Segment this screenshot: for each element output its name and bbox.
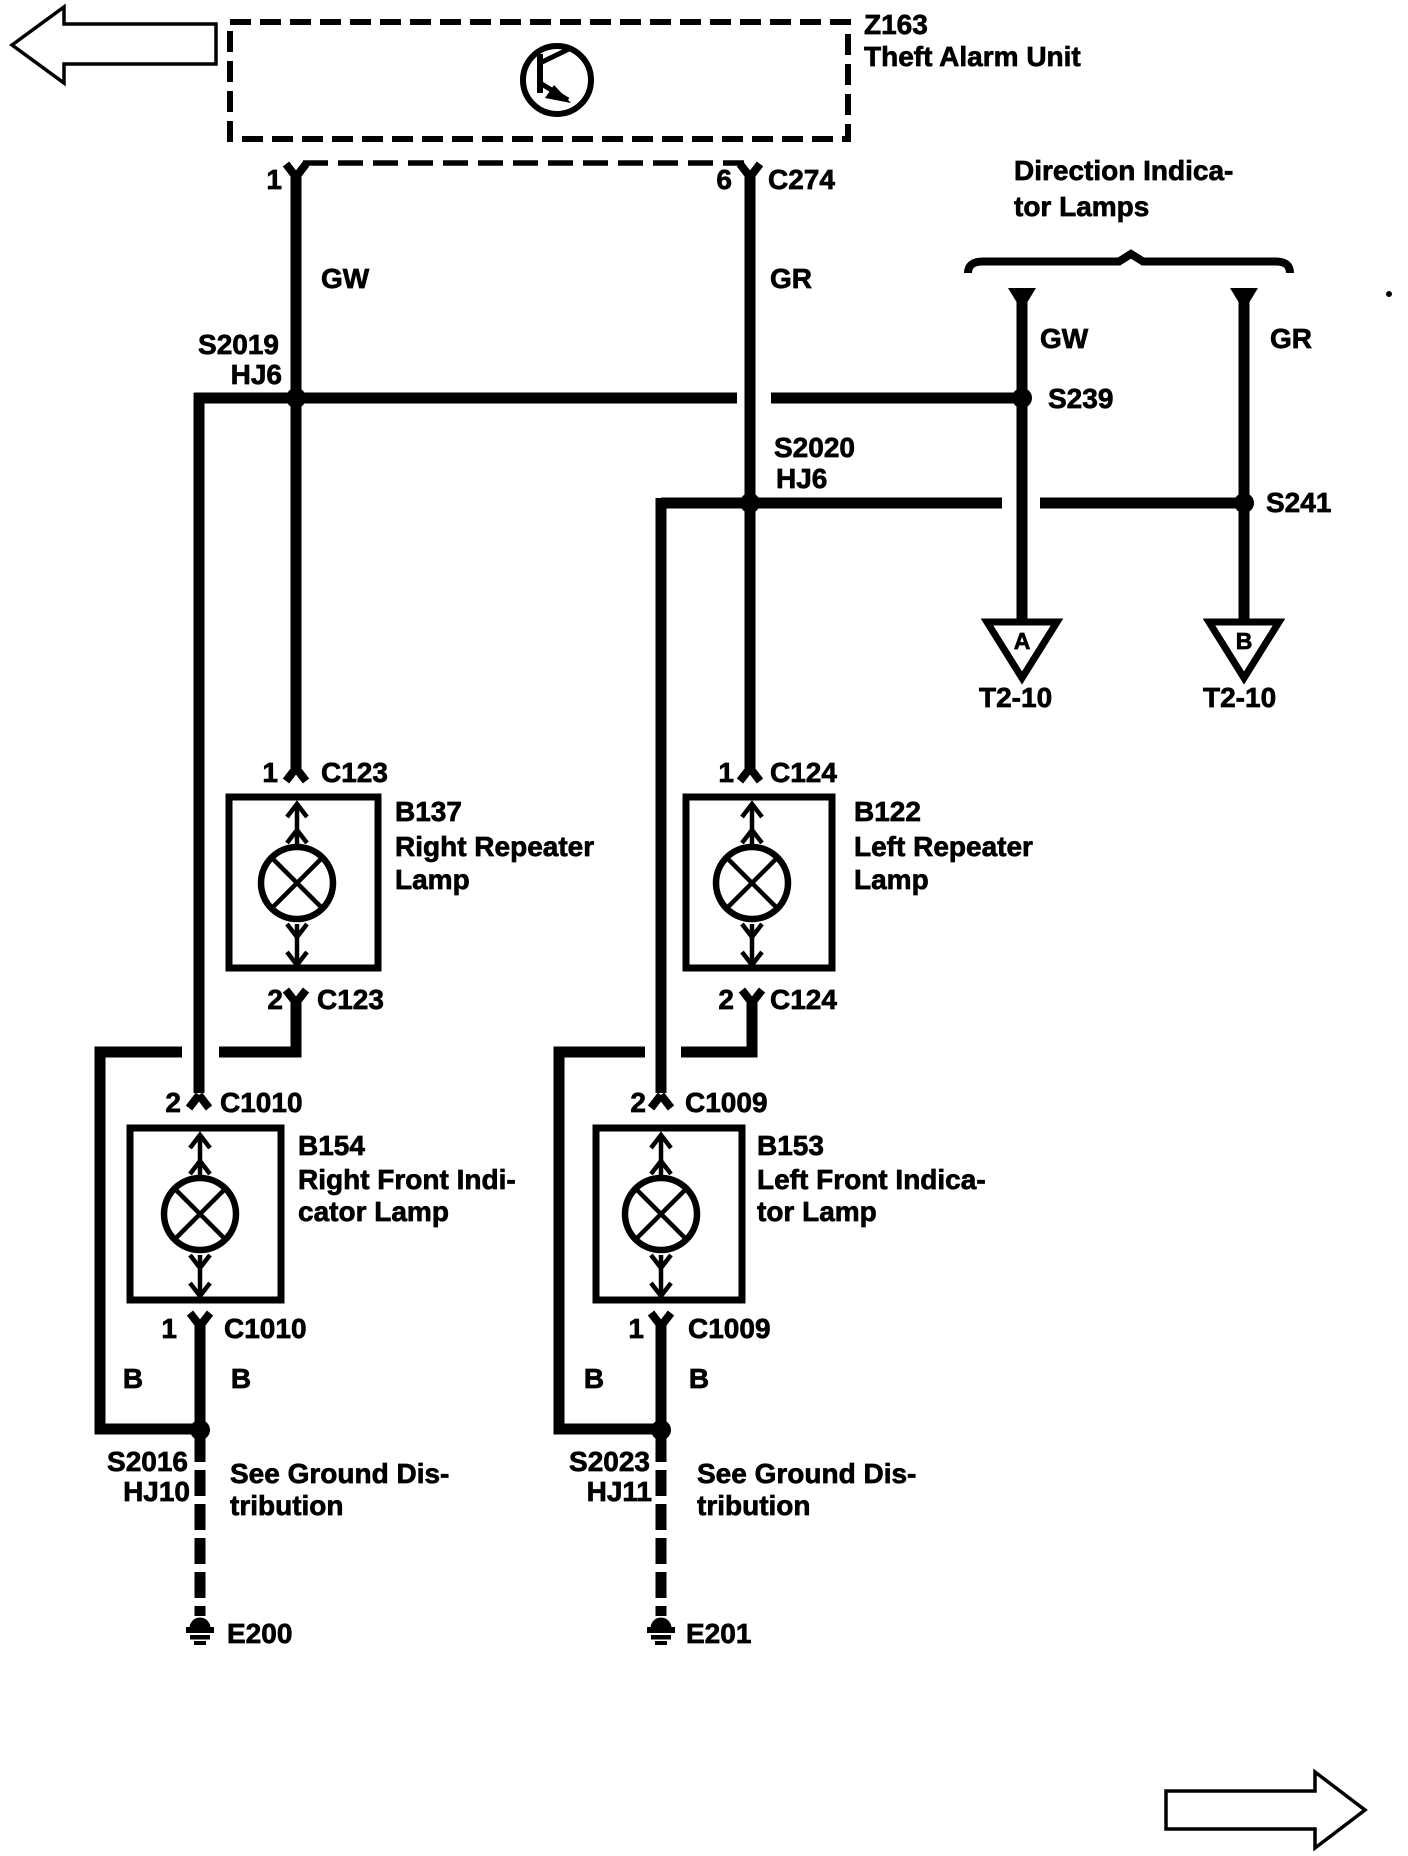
svg-text:C1009: C1009 (688, 1313, 771, 1344)
svg-text:tribution: tribution (230, 1490, 344, 1521)
svg-text:HJ10: HJ10 (123, 1476, 190, 1507)
connector 1 C123 fork (286, 768, 306, 781)
svg-text:HJ6: HJ6 (776, 463, 827, 494)
svg-text:Right Repeater: Right Repeater (395, 831, 594, 862)
svg-text:6: 6 (716, 164, 732, 195)
node GW indicator arrow (filled) (1008, 288, 1036, 311)
svg-text:S2019: S2019 (198, 329, 279, 360)
node GR indicator arrow (filled) (1230, 288, 1258, 311)
wire B from C1009 pin1 to ground junction (656, 1322, 667, 1430)
wire from B137 pin2 down and left (hop over branch wire) to outer run (219, 1000, 296, 1052)
wire left branch from S2019 corner down to C1010 pin2 (194, 393, 205, 1093)
svg-text:Lamp: Lamp (854, 864, 929, 895)
wire GW from Z163 pin1 to C123 pin1 (291, 170, 302, 768)
dashed ground wire to E200 (195, 1436, 206, 1616)
pin 6 connector fork at Z163 (740, 164, 760, 177)
svg-text:S2023: S2023 (569, 1446, 650, 1477)
svg-text:2: 2 (267, 984, 283, 1015)
svg-text:B122: B122 (854, 796, 921, 827)
svg-text:GR: GR (770, 263, 812, 294)
dashed connector line C274 under Z163 (303, 160, 744, 166)
svg-text:A: A (1014, 628, 1031, 654)
svg-text:GW: GW (321, 263, 370, 294)
svg-text:B: B (584, 1363, 604, 1394)
svg-text:C1010: C1010 (220, 1087, 303, 1118)
svg-text:Lamp: Lamp (395, 864, 470, 895)
svg-text:S241: S241 (1266, 487, 1331, 518)
svg-text:tor Lamps: tor Lamps (1014, 191, 1149, 222)
svg-text:1: 1 (262, 757, 278, 788)
lamp B137 symbol (261, 804, 333, 965)
pin 1 connector fork at Z163 (286, 164, 306, 177)
svg-text:1: 1 (266, 164, 282, 195)
svg-text:B153: B153 (757, 1130, 824, 1161)
connector 2 C124 fork (742, 990, 762, 1003)
svg-text:C123: C123 (321, 757, 388, 788)
svg-text:tor Lamp: tor Lamp (757, 1196, 877, 1227)
off-page triangle B to T2-10 (1209, 622, 1279, 678)
junction S2019 (286, 388, 306, 408)
lamp B137 box (229, 797, 378, 968)
svg-text:See Ground Dis-: See Ground Dis- (230, 1458, 449, 1489)
lamp B153 symbol (625, 1135, 697, 1296)
svg-text:T2-10: T2-10 (979, 682, 1052, 713)
speck artifact (1386, 291, 1392, 297)
svg-text:C124: C124 (770, 984, 837, 1015)
svg-text:HJ11: HJ11 (587, 1476, 652, 1507)
lamp B154 box (130, 1128, 281, 1300)
svg-text:2: 2 (718, 984, 734, 1015)
svg-text:E201: E201 (686, 1618, 751, 1649)
svg-text:B: B (231, 1363, 251, 1394)
lamp B153 box (596, 1128, 742, 1300)
junction S2020 (740, 493, 760, 513)
ground E201 (647, 1618, 675, 1646)
connector 2 C123 fork (286, 990, 306, 1003)
svg-text:T2-10: T2-10 (1203, 682, 1276, 713)
svg-text:GR: GR (1270, 323, 1312, 354)
svg-text:B: B (123, 1363, 143, 1394)
svg-text:2: 2 (165, 1087, 181, 1118)
junction S241 (1234, 493, 1254, 513)
wire GR indicator from arrow to T2-10 (1239, 300, 1250, 622)
svg-text:S2020: S2020 (774, 432, 855, 463)
lamp B122 symbol (716, 804, 788, 965)
svg-text:Theft Alarm Unit: Theft Alarm Unit (864, 41, 1081, 72)
dashed ground wire to E201 (656, 1436, 667, 1616)
wire GR from Z163 pin6 to C124 pin1 (745, 170, 756, 768)
svg-text:B137: B137 (395, 796, 462, 827)
svg-text:S2016: S2016 (107, 1446, 188, 1477)
svg-text:S239: S239 (1048, 383, 1113, 414)
junction S2016 (190, 1420, 210, 1440)
wire S2019 horizontal bus to S239 (gap hop over GR wire) (194, 393, 737, 404)
lamp B154 symbol (164, 1135, 236, 1296)
theft alarm unit Z163 dashed box (230, 22, 848, 139)
svg-text:E200: E200 (227, 1618, 292, 1649)
wire B from C1010 pin1 to ground junction (195, 1322, 206, 1430)
svg-text:Right Front Indi-: Right Front Indi- (298, 1164, 516, 1195)
transistor symbol inside Z163 (523, 46, 591, 114)
svg-text:Left Front Indica-: Left Front Indica- (757, 1164, 986, 1195)
svg-text:C123: C123 (317, 984, 384, 1015)
svg-text:HJ6: HJ6 (231, 359, 282, 390)
junction S2023 (651, 1420, 671, 1440)
wire S2020 horizontal bus to S241 (gap hop over GW indicator wire) (661, 498, 1002, 509)
svg-text:B: B (1236, 628, 1253, 654)
svg-text:Left Repeater: Left Repeater (854, 831, 1033, 862)
connector 1 C1010 fork (190, 1313, 210, 1326)
wire GW indicator from arrow to T2-10 (1017, 300, 1028, 622)
svg-text:2: 2 (630, 1087, 646, 1118)
svg-text:See Ground Dis-: See Ground Dis- (697, 1458, 916, 1489)
connector 2 C1010 fork (189, 1095, 209, 1108)
connector 1 C1009 fork (651, 1313, 671, 1326)
svg-text:GW: GW (1040, 323, 1089, 354)
svg-text:Direction Indica-: Direction Indica- (1014, 155, 1233, 186)
svg-text:Z163: Z163 (864, 9, 928, 40)
svg-text:1: 1 (161, 1313, 177, 1344)
off-page triangle A to T2-10 (987, 622, 1057, 678)
svg-text:B154: B154 (298, 1130, 365, 1161)
svg-text:1: 1 (628, 1313, 644, 1344)
lamp B122 box (686, 797, 832, 968)
off-page arrow (top left) (12, 7, 216, 83)
wire from B122 pin2 down and left (hop over branch wire) to outer run (681, 1000, 752, 1052)
svg-text:C1009: C1009 (685, 1087, 768, 1118)
svg-text:C124: C124 (770, 757, 837, 788)
svg-text:cator Lamp: cator Lamp (298, 1196, 449, 1227)
svg-text:B: B (689, 1363, 709, 1394)
junction S239 (1012, 388, 1032, 408)
connector 2 C1009 fork (651, 1095, 671, 1108)
wire right branch from S2020 corner down to C1009 pin2 (656, 498, 667, 1093)
brace over indicator wires (968, 254, 1290, 273)
connector 1 C124 fork (740, 768, 760, 781)
svg-text:C1010: C1010 (224, 1313, 307, 1344)
svg-text:1: 1 (718, 757, 734, 788)
svg-text:C274: C274 (768, 164, 835, 195)
ground E200 (186, 1618, 214, 1646)
off-page arrow (bottom right) (1166, 1772, 1365, 1848)
svg-text:tribution: tribution (697, 1490, 811, 1521)
